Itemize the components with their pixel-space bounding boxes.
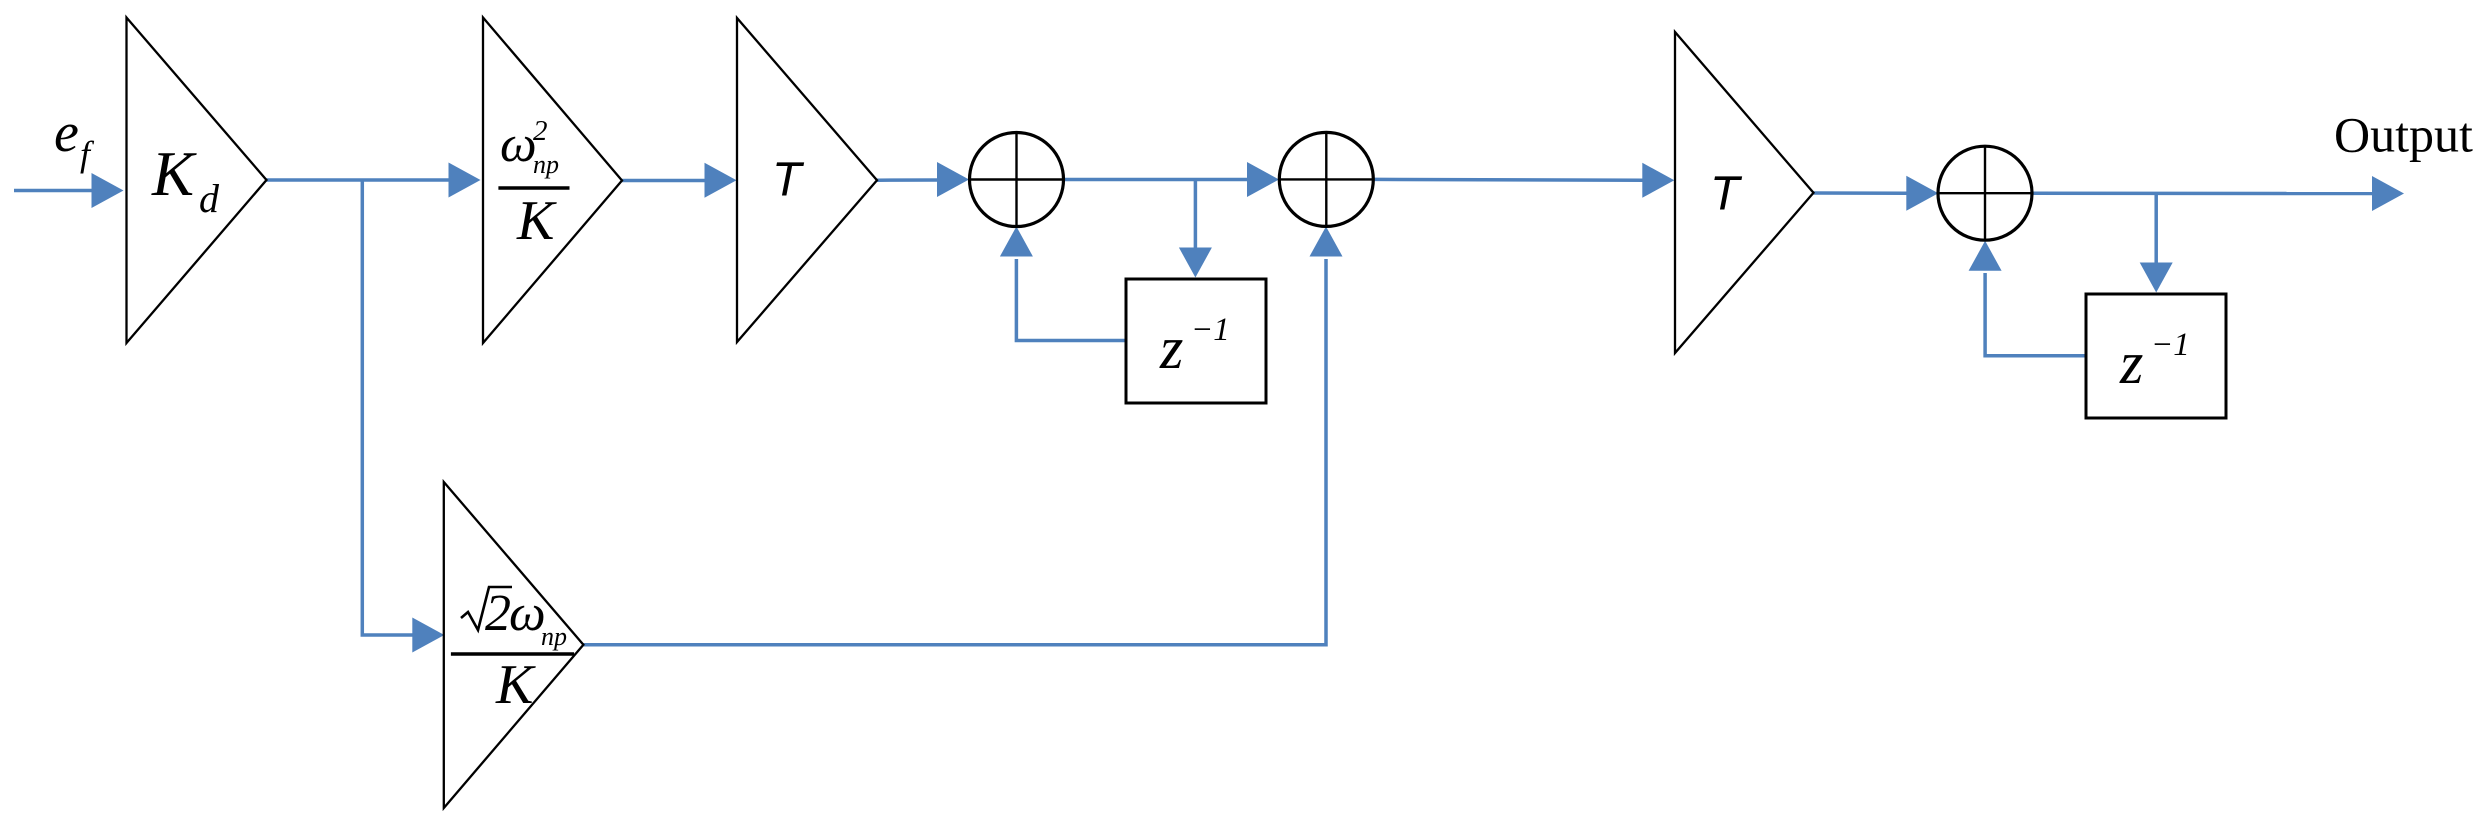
svg-text:K: K <box>151 139 197 209</box>
svg-text:T: T <box>772 154 805 207</box>
svg-text:T: T <box>1710 168 1743 221</box>
svg-text:−1: −1 <box>2151 327 2190 363</box>
svg-text:K: K <box>516 190 557 252</box>
svg-text:2: 2 <box>533 115 548 147</box>
svg-text:np: np <box>541 622 567 651</box>
svg-text:z: z <box>1159 315 1183 381</box>
svg-text:ω: ω <box>500 116 537 173</box>
svg-text:np: np <box>533 150 559 179</box>
svg-text:e: e <box>54 102 79 164</box>
svg-text:d: d <box>199 176 220 221</box>
svg-text:z: z <box>2119 330 2143 396</box>
svg-text:Output: Output <box>2334 107 2473 163</box>
svg-text:K: K <box>495 654 536 716</box>
svg-text:2: 2 <box>485 585 511 642</box>
svg-text:−1: −1 <box>1191 312 1230 348</box>
